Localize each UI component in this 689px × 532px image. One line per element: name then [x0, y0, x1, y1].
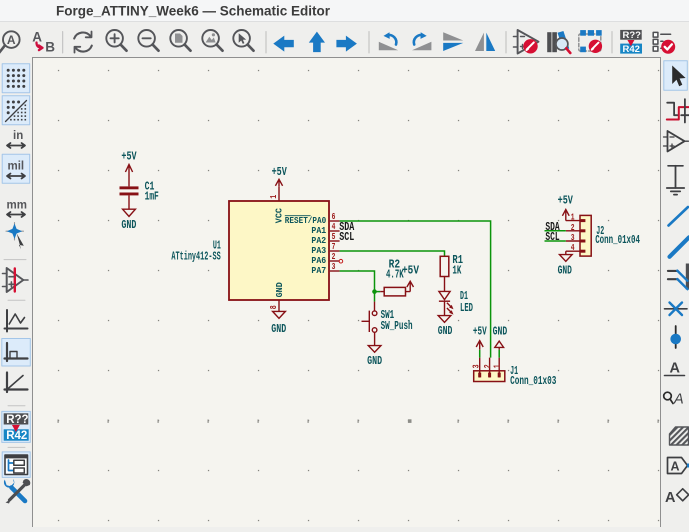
svg-text:Conn_01x04: Conn_01x04: [595, 234, 640, 247]
icon: nav right: [336, 36, 357, 52]
icon: place symbol: [664, 131, 689, 152]
svg-text:GND: GND: [493, 326, 508, 339]
connector J1 Conn_01x03: [474, 358, 505, 382]
svg-text:GND: GND: [274, 282, 285, 297]
icon: highlight net: [667, 99, 689, 122]
icon: mirror vertical: [443, 32, 463, 51]
power +5V (J1 pin 3): [476, 341, 483, 350]
wire +5V to J1 pin3: [479, 350, 481, 358]
icon: library browser: [547, 31, 570, 53]
icon: symbol editor: [514, 30, 539, 54]
wire U1 pin3 to junction/SW1: [340, 271, 375, 302]
icon: junction: [670, 326, 681, 348]
wire U1 pin6 to J1 pin2: [340, 221, 491, 358]
icon: grid override (selected): [2, 96, 30, 125]
svg-text:1: 1: [269, 194, 279, 198]
svg-text:1: 1: [571, 213, 575, 223]
pin 6 RESET/PA0: [285, 212, 340, 226]
svg-text:+5V: +5V: [473, 326, 487, 339]
svg-text:+5V: +5V: [558, 195, 573, 208]
icon: zoom selection: [202, 30, 222, 51]
svg-text:1K: 1K: [452, 264, 461, 277]
icon: footprint editor: [579, 30, 602, 53]
ground (U1 pin 8): [273, 311, 286, 318]
pin 2 PA6 (unconnected): [311, 252, 342, 266]
svg-text:ATtiny412-SS: ATtiny412-SS: [171, 251, 220, 264]
power +5V (U1 pin 1): [275, 179, 282, 186]
icon: hierarchical sheet: [670, 427, 689, 445]
icon: hidden pins: [3, 268, 29, 292]
junction (PA7/R2/SW1): [372, 289, 377, 294]
svg-text:PA7: PA7: [311, 265, 326, 276]
svg-text:SCL: SCL: [339, 231, 354, 244]
svg-text:4: 4: [332, 222, 336, 232]
resistor R1: [440, 256, 449, 292]
icon: graphics: [5, 310, 28, 332]
icon: mirror horizontal: [475, 33, 495, 51]
svg-text:3: 3: [472, 364, 482, 368]
wire GND to J1 pin1: [498, 350, 500, 358]
svg-text:SW_Push: SW_Push: [381, 320, 413, 333]
icon: units inches: [7, 130, 25, 148]
pin 4 PA1: [311, 222, 339, 236]
svg-text:8: 8: [269, 305, 279, 309]
svg-text:mil: mil: [8, 161, 25, 173]
connector J2 Conn_01x04: [566, 215, 591, 256]
icon: preferences tools: [4, 479, 30, 504]
svg-text:GND: GND: [438, 325, 453, 338]
icon: hierarchical label: [668, 458, 689, 474]
icon: undo: [379, 32, 398, 50]
svg-text:+5V: +5V: [121, 150, 136, 163]
svg-text:3: 3: [571, 233, 575, 243]
grid axis tick row: [58, 419, 659, 423]
svg-text:GND: GND: [121, 219, 136, 232]
icon: place power port: [667, 166, 684, 195]
capacitor C1: [120, 186, 139, 209]
svg-text:SCL: SCL: [545, 231, 559, 244]
svg-text:+5V: +5V: [272, 166, 287, 179]
icon: annotate R?? R42: [620, 30, 642, 55]
svg-text:Conn_01x03: Conn_01x03: [510, 375, 556, 388]
pin 7 PA3: [311, 242, 339, 256]
ground (below C1): [123, 209, 136, 216]
window title bar: [0, 0, 689, 22]
ground (below SW1): [368, 346, 381, 353]
svg-text:R42: R42: [623, 44, 640, 55]
power +5V (J2 pin 1): [562, 210, 569, 221]
svg-text:3: 3: [332, 262, 336, 272]
icon: no connect: [665, 303, 688, 316]
svg-text:A: A: [673, 392, 684, 408]
icon: crosshair cursor: [6, 223, 24, 250]
icon: text: [665, 489, 689, 506]
icon: net label: [665, 361, 685, 377]
icon: any angle wire mode: [5, 373, 28, 393]
power +5V (above C1): [125, 165, 132, 187]
icon: annotate A->B: [32, 29, 55, 54]
icon: annotate sidebar (selected): [2, 411, 31, 442]
svg-text:6: 6: [332, 212, 336, 222]
svg-text:B: B: [45, 39, 55, 54]
svg-text:+5V: +5V: [402, 264, 419, 277]
icon: add wire: [669, 207, 689, 226]
icon: zoom to fit: [0, 31, 20, 53]
icon: grid dots (selected): [2, 64, 30, 93]
svg-text:R42: R42: [6, 430, 27, 442]
wire U1 pin7 to R1: [340, 251, 445, 256]
icon: zoom page: [170, 30, 190, 51]
svg-text:7: 7: [332, 242, 336, 252]
icon: ERC check: [653, 32, 675, 53]
icon: wire to bus entry: [668, 264, 689, 290]
icon: directive label: [664, 392, 684, 408]
icon: redo: [412, 32, 431, 50]
svg-text:R??: R??: [6, 414, 28, 426]
svg-text:GND: GND: [271, 323, 286, 336]
svg-text:LED: LED: [460, 302, 473, 315]
svg-text:2: 2: [571, 223, 575, 233]
svg-text:mm: mm: [7, 200, 27, 212]
svg-text:A: A: [665, 490, 676, 506]
svg-text:A: A: [7, 33, 16, 47]
top toolbar: [0, 22, 689, 57]
left toolbar: [0, 57, 33, 527]
wire SCL to J2 pin3: [545, 240, 566, 242]
icon: zoom out: [138, 30, 158, 51]
icon: add bus: [670, 237, 689, 256]
icon: HV wire mode (selected): [2, 339, 31, 367]
svg-text:A: A: [671, 460, 680, 474]
svg-text:GND: GND: [558, 265, 572, 278]
icon: units mils (selected): [2, 154, 30, 183]
pin 5 PA2: [311, 232, 339, 246]
svg-text:VCC: VCC: [273, 208, 284, 223]
ground (J2 pin 4): [560, 251, 573, 261]
resistor R2: [380, 287, 410, 296]
svg-text:5: 5: [332, 232, 336, 242]
icon: hierarchy navigator (selected): [2, 452, 30, 478]
icon: nav left: [273, 36, 294, 52]
ground (J1 pin 1, rotated): [495, 341, 504, 347]
svg-text:1: 1: [493, 364, 503, 368]
svg-text:Forge_ATTINY_Week6 — Schematic: Forge_ATTINY_Week6 — Schematic Editor: [56, 4, 331, 19]
icon: units mm: [7, 200, 27, 218]
wire SDA to J2 pin2: [545, 230, 566, 232]
svg-text:GND: GND: [367, 355, 382, 368]
pin 8 GND (U1 bottom): [269, 282, 285, 311]
icon: nav up: [309, 32, 325, 52]
pin 3 PA7: [311, 262, 339, 276]
wire junction to R2: [375, 291, 381, 293]
svg-text:A: A: [670, 361, 681, 377]
ground (below D1): [438, 316, 451, 323]
icon: zoom in: [106, 30, 126, 51]
icon: zoom cursor: [233, 30, 253, 51]
svg-text:in: in: [13, 130, 23, 142]
svg-text:4: 4: [571, 243, 575, 253]
right toolbar: [660, 57, 689, 527]
pin 1 VCC (U1 top): [269, 186, 284, 223]
icon: select tool (selected): [664, 61, 688, 91]
svg-text:2: 2: [332, 252, 336, 262]
IC U1 ATtiny412-SS body: [229, 201, 329, 300]
svg-text:R??: R??: [623, 30, 642, 41]
svg-text:1mF: 1mF: [145, 191, 159, 204]
icon: refresh: [74, 32, 92, 53]
switch SW1 SW_Push: [362, 302, 377, 346]
LED D1: [439, 291, 454, 315]
power +5V (R2): [407, 281, 414, 291]
